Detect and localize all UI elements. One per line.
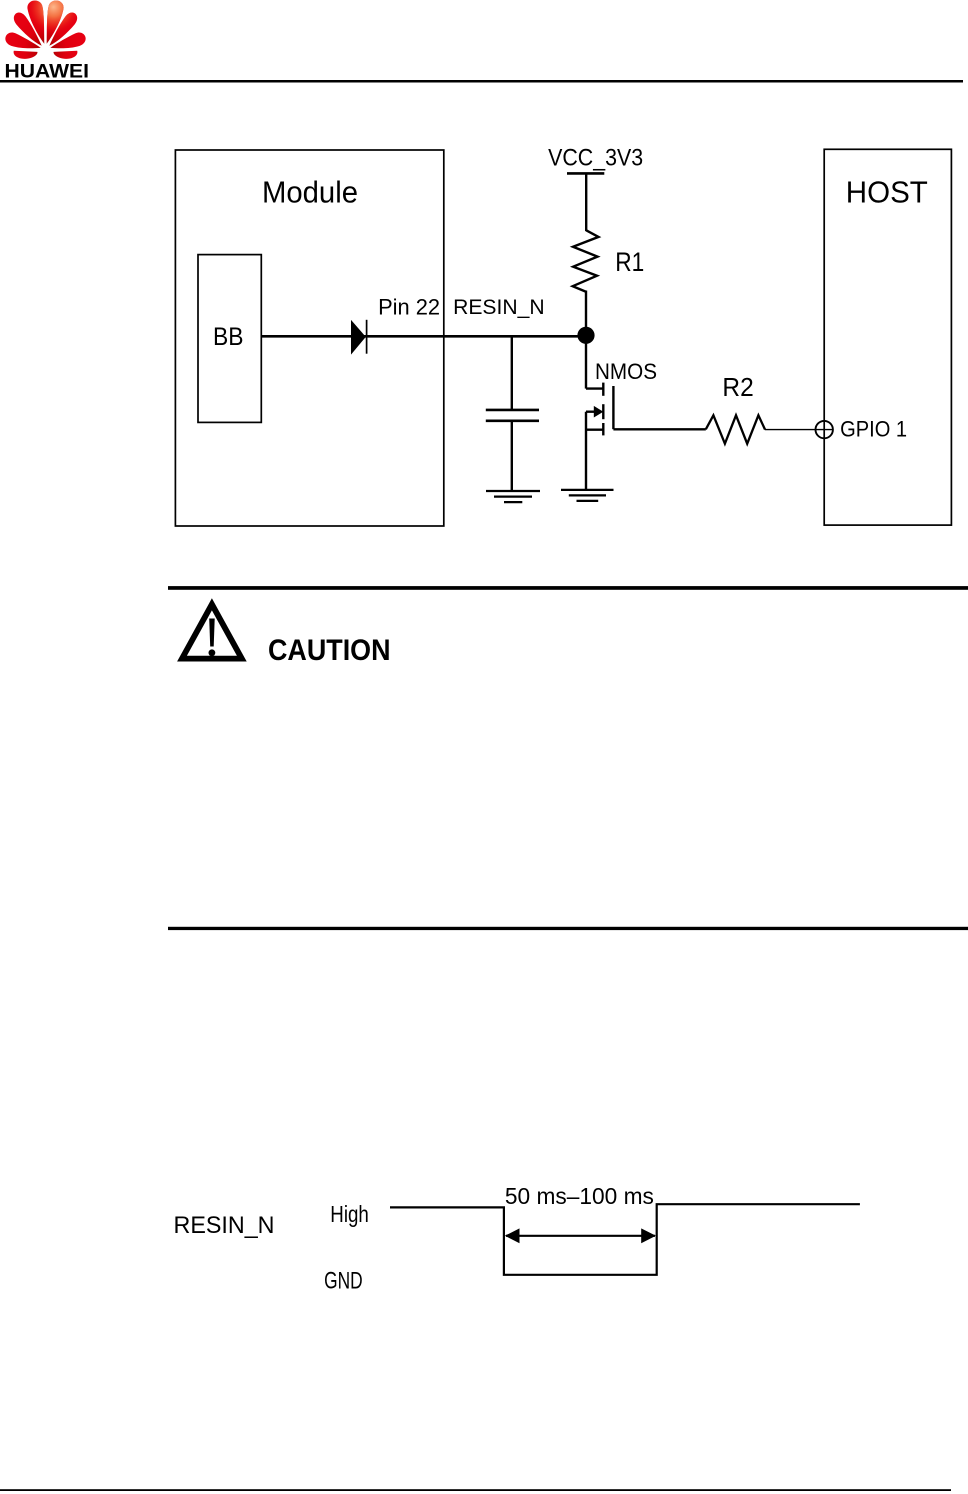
ground (NMOS source): [561, 490, 614, 501]
wire VCC to R1: [585, 175, 587, 232]
transistor NMOS: [586, 383, 613, 490]
svg-text:R2: R2: [722, 372, 753, 402]
wire node to capacitor: [511, 338, 513, 410]
svg-text:HUAWEI: HUAWEI: [5, 61, 90, 83]
svg-text:NMOS: NMOS: [595, 359, 657, 384]
wire NMOS gate to R2: [613, 428, 705, 430]
caution triangle icon: [182, 604, 242, 658]
svg-text:R1: R1: [615, 247, 644, 277]
rule below caution: [168, 927, 968, 930]
svg-text:RESIN_N: RESIN_N: [453, 295, 544, 319]
pulse width arrow: [505, 1228, 656, 1243]
resistor R2: [706, 415, 765, 443]
svg-text:GPIO 1: GPIO 1: [840, 416, 907, 441]
resistor R1: [573, 230, 599, 291]
VCC_3V3 supply bar: [567, 172, 604, 175]
svg-text:HOST: HOST: [846, 174, 928, 209]
HOST box: [824, 149, 951, 525]
BB block: [198, 255, 261, 423]
svg-text:50 ms–100 ms: 50 ms–100 ms: [505, 1183, 654, 1209]
svg-text:VCC_3V3: VCC_3V3: [548, 144, 643, 171]
junction node dot: [577, 327, 594, 344]
svg-text:CAUTION: CAUTION: [268, 634, 391, 667]
waveform RESIN_N: [390, 1204, 860, 1275]
wire capacitor to ground: [511, 422, 513, 491]
pin GPIO 1: [816, 421, 833, 438]
svg-text:Pin 22: Pin 22: [378, 295, 440, 320]
Module box: [175, 150, 443, 526]
wire R1 to node: [585, 291, 587, 336]
svg-text:Module: Module: [262, 174, 358, 209]
wire BB to node (RESIN_N net): [261, 335, 586, 338]
ground (capacitor): [486, 491, 540, 502]
svg-text:BB: BB: [213, 323, 244, 351]
svg-text:High: High: [330, 1201, 369, 1227]
svg-text:GND: GND: [324, 1267, 363, 1294]
capacitor C1: [486, 410, 539, 421]
rule above caution: [168, 586, 968, 590]
diode D1: [351, 320, 367, 355]
svg-text:RESIN_N: RESIN_N: [174, 1212, 275, 1239]
footer rule: [0, 1489, 951, 1491]
wire R2 to GPIO: [765, 429, 816, 431]
NMOS bulk arrow: [594, 406, 604, 418]
logo: [3, 0, 89, 83]
header rule: [0, 80, 963, 83]
wire node to NMOS drain: [585, 343, 587, 389]
